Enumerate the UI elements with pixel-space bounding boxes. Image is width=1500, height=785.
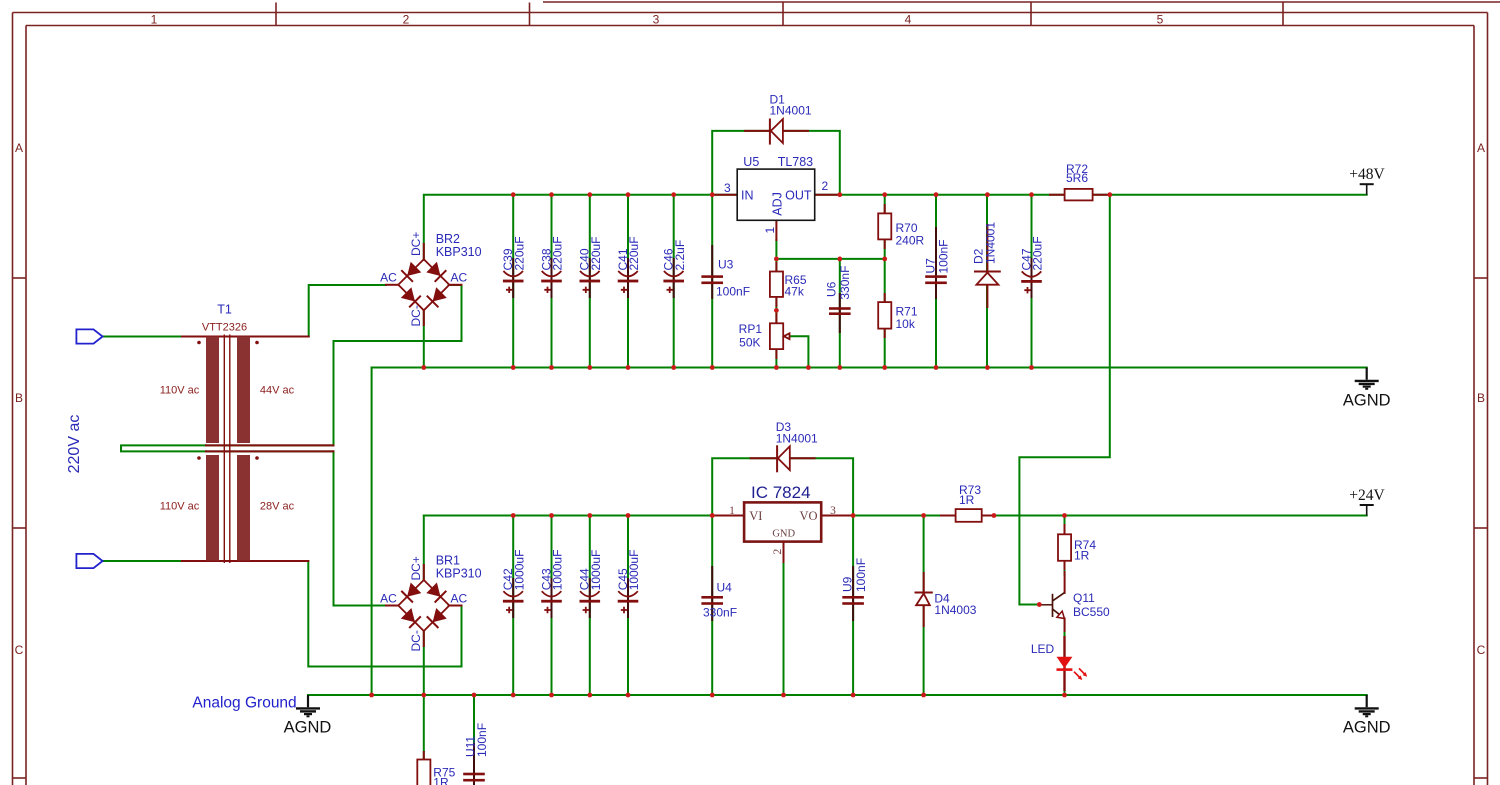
wire BR2 AC left to transformer 44V top xyxy=(262,285,386,337)
resistor R73 1R xyxy=(941,483,991,522)
wire bottom ground rail xyxy=(308,694,1367,696)
wire +24V rail right (IC VO to +24V flag) xyxy=(821,515,1367,517)
wire U6 drop xyxy=(839,259,841,368)
svg-text:1N4003: 1N4003 xyxy=(934,603,976,617)
resistor R70 240R xyxy=(878,205,924,248)
svg-text:1N4001: 1N4001 xyxy=(984,222,998,264)
svg-text:U4: U4 xyxy=(717,581,733,595)
wire D1 bypass loop xyxy=(712,131,840,195)
regulator U5 TL783 xyxy=(712,155,840,240)
frame row letter A left xyxy=(15,141,23,155)
svg-text:AGND: AGND xyxy=(284,719,332,737)
regulator IC 7824 xyxy=(712,483,853,562)
capacitor U6 330nF xyxy=(824,266,852,332)
wire transformer primary top from input flag xyxy=(103,336,182,338)
capacitor U4 330nF xyxy=(701,567,737,620)
svg-text:GND: GND xyxy=(772,529,795,540)
resistor R75 1R xyxy=(417,752,455,785)
diode D3 1N4001 xyxy=(751,420,818,471)
input connector flag top xyxy=(76,329,102,343)
svg-text:VTT2326: VTT2326 xyxy=(202,322,247,334)
frame row letter C left xyxy=(15,643,24,657)
capacitor C47 220uF xyxy=(1019,236,1044,297)
label 220V ac xyxy=(66,415,83,474)
frame column number 2 xyxy=(403,13,410,27)
svg-text:240R: 240R xyxy=(896,233,925,247)
svg-text:+24V: +24V xyxy=(1349,487,1385,504)
ground AGND top right xyxy=(1343,368,1391,410)
bridge rectifier BR1 KBP310 xyxy=(380,554,481,652)
svg-text:110V ac: 110V ac xyxy=(160,385,200,397)
input connector flag bottom xyxy=(76,554,102,568)
wire +48V feed down to Q11 base xyxy=(1019,195,1109,605)
svg-text:AGND: AGND xyxy=(1343,719,1391,737)
svg-text:A: A xyxy=(15,141,23,155)
wire C42 drop xyxy=(512,516,514,696)
capacitor U9 100nF xyxy=(841,558,868,620)
wire D2 drop xyxy=(986,195,988,368)
svg-text:1: 1 xyxy=(729,505,735,517)
wire BR1 DC- to ground rail xyxy=(423,631,425,695)
svg-text:110V ac: 110V ac xyxy=(160,501,200,513)
capacitor C43 1000uF xyxy=(539,550,564,617)
svg-text:2: 2 xyxy=(772,549,784,555)
svg-text:VO: VO xyxy=(799,509,817,523)
svg-text:220uF: 220uF xyxy=(627,236,641,270)
svg-text:5: 5 xyxy=(1157,13,1164,27)
wire BR1 DC+ to +24V rail xyxy=(423,516,425,581)
wire IC7824 GND pin to ground rail xyxy=(783,542,785,695)
svg-text:2.2uF: 2.2uF xyxy=(673,240,687,271)
svg-text:1R: 1R xyxy=(1074,549,1090,563)
ground AGND bottom left (Analog Ground) xyxy=(284,695,332,737)
wire BR2 DC- to AGND rail xyxy=(423,310,425,368)
resistor R65 47k xyxy=(770,263,807,306)
svg-text:DC+: DC+ xyxy=(409,556,423,580)
capacitor U3 100nF xyxy=(701,246,750,299)
resistor R71 10k xyxy=(878,294,918,337)
svg-text:A: A xyxy=(1477,141,1485,155)
svg-text:IN: IN xyxy=(741,188,754,202)
wire U11 drop xyxy=(473,695,475,774)
wire D4 drop xyxy=(923,516,925,696)
capacitor C45 1000uF xyxy=(616,550,641,617)
svg-text:C: C xyxy=(15,643,24,657)
svg-text:C: C xyxy=(1477,643,1486,657)
wire transformer 28V bottom to BR1 AC right xyxy=(262,561,462,667)
svg-text:BC550: BC550 xyxy=(1073,605,1110,619)
svg-text:100nF: 100nF xyxy=(854,558,868,592)
capacitor C40 220uF xyxy=(578,236,603,297)
frame column number 3 xyxy=(653,13,660,27)
svg-text:LED: LED xyxy=(1031,642,1055,656)
frame row letter C right xyxy=(1477,643,1486,657)
ground AGND bottom right xyxy=(1343,695,1391,737)
svg-text:AGND: AGND xyxy=(1343,391,1391,409)
svg-text:1R: 1R xyxy=(433,776,449,785)
power flag +48V xyxy=(1349,166,1385,195)
svg-text:5R6: 5R6 xyxy=(1066,171,1088,185)
capacitor C42 1000uF xyxy=(501,550,526,617)
svg-text:220uF: 220uF xyxy=(551,236,565,270)
svg-text:U3: U3 xyxy=(718,258,734,272)
svg-text:10k: 10k xyxy=(896,317,916,331)
wire R70 R71 column xyxy=(884,195,886,368)
svg-text:330nF: 330nF xyxy=(838,266,852,300)
wire R65 RP1 chain xyxy=(775,259,777,368)
junction dots ADJ net xyxy=(774,257,887,313)
LED xyxy=(1031,636,1087,691)
svg-text:KBP310: KBP310 xyxy=(436,567,482,581)
wire C38 drop xyxy=(551,195,553,368)
resistor R74 1R xyxy=(1058,525,1096,569)
wire R75 drop xyxy=(423,695,425,760)
wire R74 Q11 LED column xyxy=(1064,516,1066,576)
wire C46 drop xyxy=(673,195,675,368)
svg-text:1: 1 xyxy=(151,13,158,27)
bridge rectifier BR2 KBP310 xyxy=(380,232,481,327)
wire U9 drop xyxy=(852,516,854,696)
svg-text:AC: AC xyxy=(380,271,397,285)
svg-text:+48V: +48V xyxy=(1349,166,1385,183)
svg-text:DC-: DC- xyxy=(409,630,423,651)
svg-text:ADJ: ADJ xyxy=(771,192,785,216)
capacitor U7 100nF xyxy=(924,228,951,298)
capacitor C39 220uF xyxy=(501,236,526,297)
svg-text:50K: 50K xyxy=(739,335,760,349)
wire LED cathode to ground rail xyxy=(1064,670,1066,695)
junction dots +24V rail xyxy=(511,513,1067,518)
transistor Q11 BC550 xyxy=(1039,572,1110,631)
svg-text:AC: AC xyxy=(451,591,468,605)
wire AGND rail top circuit xyxy=(372,367,1367,369)
diode D4 1N4003 xyxy=(916,573,977,626)
junction dots +48V rail xyxy=(511,192,1112,197)
diode D1 1N4001 xyxy=(745,92,812,143)
svg-text:28V ac: 28V ac xyxy=(260,501,295,513)
svg-text:1000uF: 1000uF xyxy=(512,550,526,591)
svg-text:U9: U9 xyxy=(841,576,855,592)
capacitor C38 220uF xyxy=(539,236,564,297)
frame column number 4 xyxy=(905,13,912,27)
svg-text:44V ac: 44V ac xyxy=(260,385,295,397)
svg-text:U7: U7 xyxy=(924,258,938,274)
wire C45 drop xyxy=(627,516,629,696)
svg-text:Analog Ground: Analog Ground xyxy=(192,694,296,711)
wire C39 drop xyxy=(512,195,514,368)
junction dots bottom ground rail xyxy=(369,693,1067,698)
svg-text:IC 7824: IC 7824 xyxy=(751,483,811,502)
svg-text:1000uF: 1000uF xyxy=(627,550,641,591)
wire U7 drop xyxy=(935,195,937,368)
svg-text:T1: T1 xyxy=(217,303,232,317)
power flag +24V xyxy=(1349,487,1385,516)
svg-text:3: 3 xyxy=(653,13,660,27)
wire BR2 AC right to center tap riser xyxy=(334,285,462,445)
svg-text:TL783: TL783 xyxy=(778,155,813,169)
capacitor C41 220uF xyxy=(616,236,641,297)
wire Q11 emitter to LED xyxy=(1064,620,1066,656)
svg-text:DC+: DC+ xyxy=(409,232,423,256)
svg-text:1000uF: 1000uF xyxy=(551,550,565,591)
capacitor C44 1000uF xyxy=(578,550,603,617)
svg-text:100nF: 100nF xyxy=(475,723,489,757)
svg-text:220V ac: 220V ac xyxy=(66,415,83,474)
svg-text:B: B xyxy=(1477,391,1485,405)
wire U3 drop xyxy=(711,195,713,368)
wire U5 ADJ net xyxy=(776,240,884,259)
svg-text:RP1: RP1 xyxy=(739,322,763,336)
wire C41 drop xyxy=(627,195,629,368)
svg-text:330nF: 330nF xyxy=(703,605,737,619)
capacitor C46 2.2uF xyxy=(662,240,687,297)
svg-text:100nF: 100nF xyxy=(937,239,951,273)
wire C44 drop xyxy=(589,516,591,696)
junction dots AGND rail top xyxy=(421,365,1034,370)
transformer T1 VTT2326 xyxy=(160,303,334,564)
svg-text:U6: U6 xyxy=(824,281,838,297)
svg-text:3: 3 xyxy=(830,505,836,517)
svg-text:KBP310: KBP310 xyxy=(436,245,482,259)
svg-text:1N4001: 1N4001 xyxy=(770,104,812,118)
potentiometer RP1 50K xyxy=(739,314,790,358)
wire transformer primary bottom from input flag xyxy=(103,560,182,562)
frame row letter B left xyxy=(15,391,23,405)
svg-text:VI: VI xyxy=(749,509,762,523)
svg-text:1: 1 xyxy=(763,227,777,234)
frame column number 5 xyxy=(1157,13,1164,27)
svg-text:B: B xyxy=(15,391,23,405)
svg-text:U5: U5 xyxy=(743,155,759,169)
wire +48V input rail (BR2 DC+ to U5 IN) xyxy=(424,195,737,260)
svg-text:BR1: BR1 xyxy=(436,554,460,568)
wire +24V rail xyxy=(424,515,744,517)
frame column number 1 xyxy=(151,13,158,27)
wire transformer center tap upper link xyxy=(206,444,334,446)
svg-text:220uF: 220uF xyxy=(1031,236,1045,270)
svg-text:2: 2 xyxy=(822,179,829,193)
svg-text:3: 3 xyxy=(724,181,731,195)
frame row letter B right xyxy=(1477,391,1485,405)
diode D2 1N4001 xyxy=(971,222,1000,307)
svg-text:1N4001: 1N4001 xyxy=(776,431,818,445)
wire C43 drop xyxy=(551,516,553,696)
wire transformer center tap left U join xyxy=(121,445,206,451)
capacitor U11 100nF xyxy=(463,723,489,785)
wire RP1 wiper to AGND xyxy=(789,336,809,367)
svg-text:4: 4 xyxy=(905,13,912,27)
svg-text:AC: AC xyxy=(451,271,468,285)
wire transformer center tap lower link xyxy=(206,450,334,452)
wire +48V output rail (U5 OUT to +48V flag) xyxy=(815,194,1367,196)
frame row letter A right xyxy=(1477,141,1485,155)
svg-text:Q11: Q11 xyxy=(1073,591,1095,605)
wire center tap to BR1 AC left xyxy=(334,451,387,605)
resistor R72 5R6 xyxy=(1050,162,1107,201)
label Analog Ground xyxy=(192,694,296,711)
wire AGND rail left drop to bottom ground rail xyxy=(371,368,373,696)
svg-text:100nF: 100nF xyxy=(716,285,750,299)
svg-text:2: 2 xyxy=(403,13,410,27)
junction dot Q11 base xyxy=(1037,602,1042,607)
wire C47 drop xyxy=(1031,195,1033,368)
svg-text:47k: 47k xyxy=(785,285,805,299)
svg-text:BR2: BR2 xyxy=(436,232,460,246)
svg-text:OUT: OUT xyxy=(785,188,812,202)
svg-text:DC-: DC- xyxy=(409,305,423,326)
wire C40 drop xyxy=(589,195,591,368)
svg-text:AC: AC xyxy=(380,591,397,605)
wire D3 bypass loop xyxy=(712,458,853,515)
svg-text:220uF: 220uF xyxy=(589,236,603,270)
svg-text:220uF: 220uF xyxy=(512,236,526,270)
wire U4 drop xyxy=(711,516,713,696)
svg-text:1000uF: 1000uF xyxy=(589,550,603,591)
svg-text:1R: 1R xyxy=(959,493,975,507)
